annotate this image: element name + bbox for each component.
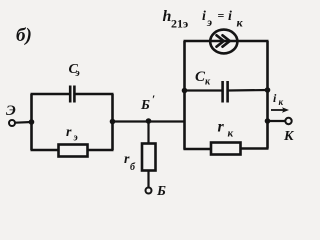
svg-text:i: i [228,9,232,24]
capacitor Cк value label [195,69,211,88]
resistor rэ [59,145,88,157]
wire Э to left loop [15,121,32,124]
svg-text:21э: 21э [171,17,188,31]
svg-text:э: э [73,133,78,144]
capacitor Cк [223,81,228,103]
svg-text:К: К [283,129,295,144]
svg-text:э: э [206,15,212,29]
resistor rб value label [124,152,136,173]
resistor rк value label [218,119,234,140]
wire left loop bottom branch left [31,149,59,152]
wire right loop bottom branch left [184,148,212,151]
wire right loop bottom branch right [241,147,269,150]
current source h21э iэ circle [210,30,237,54]
svg-text:к: к [279,97,284,107]
node junction Cк left [182,88,188,94]
resistor rк [211,143,241,155]
svg-text:к: к [237,16,244,30]
wire node Б' horizontal [113,120,185,122]
wire left loop top branch right [74,93,113,96]
label iэ = iк [202,9,244,30]
node junction К [265,118,271,124]
label h21э [163,8,189,31]
node Б' junction [146,118,152,124]
wire to terminal К [268,120,286,122]
node junction left loop left [29,119,35,125]
wire right loop top branch [184,40,269,43]
wire left loop left edge [30,94,33,150]
node junction Cк right [265,87,271,93]
svg-text:′: ′ [152,92,155,106]
resistor rэ value label [66,125,78,144]
svg-text:r: r [66,125,72,140]
current source chevrons [217,35,230,46]
svg-text:i: i [202,9,206,24]
svg-text:б): б) [16,25,32,46]
wire Б' down to rб [147,121,149,144]
capacitor Cэ value label [69,62,80,79]
wire left loop bottom branch right [88,149,114,152]
terminal К circle [285,118,291,124]
capacitor Cэ [70,86,74,103]
svg-text:Э: Э [6,103,16,119]
current iк label [273,91,284,107]
svg-text:Б: Б [156,184,166,199]
wire Cк branch right [228,89,268,92]
wire rб to terminal Б [147,171,149,188]
wire right loop left edge [183,41,186,150]
svg-text:к: к [228,128,234,140]
svg-text:r: r [218,119,225,136]
resistor rб [142,144,156,171]
terminal Б circle [146,188,152,194]
wire left loop right edge [111,94,114,150]
node Б' label [140,92,155,113]
svg-text:Б: Б [140,98,150,113]
terminal Э circle [9,120,15,126]
svg-text:=: = [218,9,225,23]
node junction left loop right [110,119,116,125]
wire right loop right edge [266,41,269,149]
current iк arrow [271,107,289,113]
wire Cк branch left [185,89,223,91]
svg-text:э: э [75,68,80,79]
wire left loop top branch left [31,93,71,96]
